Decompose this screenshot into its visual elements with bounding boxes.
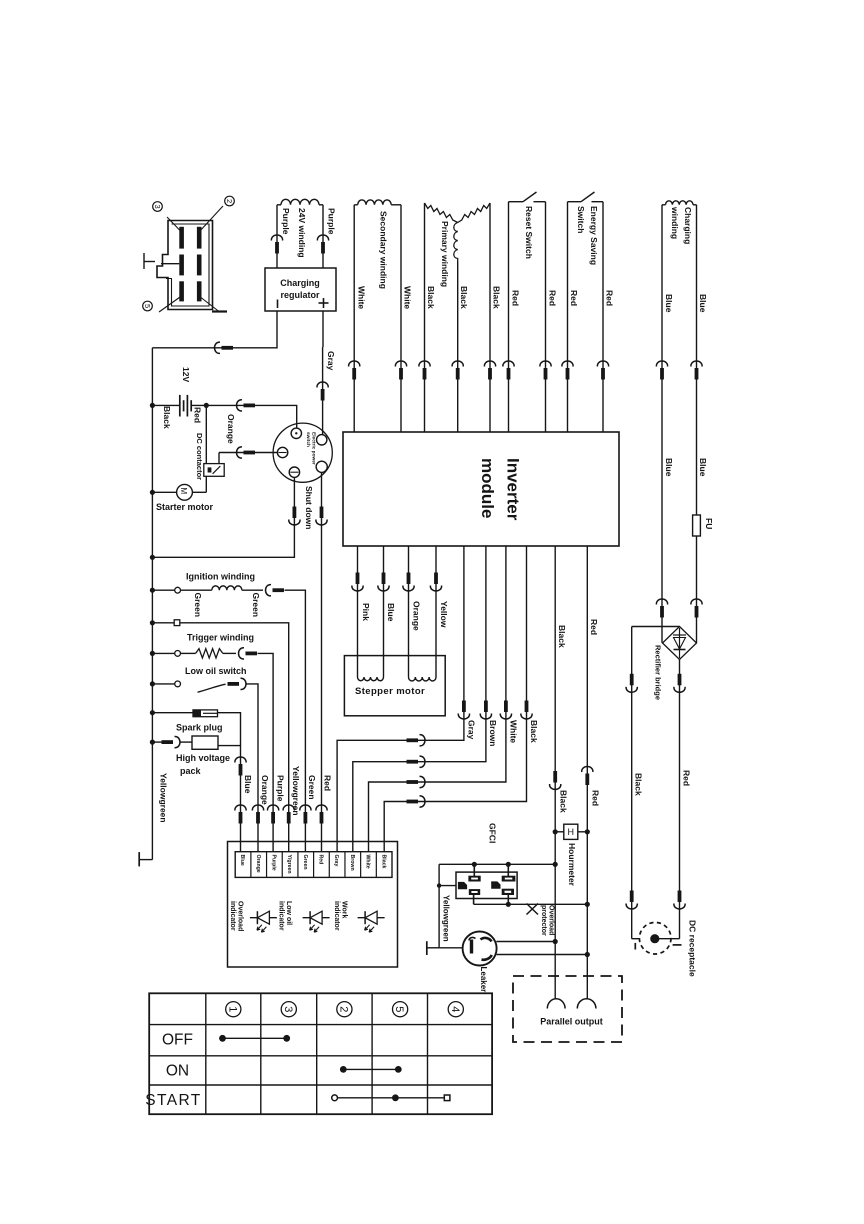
svg-text:OFF: OFF bbox=[162, 1032, 193, 1049]
gfci ground hole right bbox=[491, 881, 500, 888]
svg-text:Green: Green bbox=[302, 855, 308, 870]
wire energy red left to inverter bbox=[567, 202, 569, 432]
wire red from switch right-bottom pin down to panel cell Red bbox=[321, 472, 323, 851]
wire gray regulator right output down to power switch bbox=[322, 311, 324, 347]
wire gray inverter to panel cell bbox=[337, 546, 464, 852]
svg-text:Blue: Blue bbox=[386, 603, 396, 622]
connector gray horizontal bbox=[407, 738, 419, 742]
svg-text:Green: Green bbox=[251, 593, 261, 618]
junction battery positive bbox=[204, 403, 209, 408]
junction rail yellowgreen bbox=[150, 620, 155, 625]
svg-text:ON: ON bbox=[166, 1062, 189, 1079]
connector white riser bbox=[504, 701, 508, 713]
connector on blue wire below hv pack bbox=[235, 757, 246, 762]
wire secondary white right to inverter bbox=[400, 205, 402, 432]
junction leaker black bbox=[553, 939, 558, 944]
svg-text:Leaker: Leaker bbox=[479, 967, 488, 993]
wire blue inverter to stepper bbox=[383, 546, 385, 677]
panel terminal divider 2 bbox=[266, 852, 268, 878]
connector on blue wire above panel bbox=[235, 805, 246, 810]
wire orange inverter to stepper bbox=[408, 546, 410, 677]
svg-text:2: 2 bbox=[225, 199, 234, 203]
junction rail shutdown bbox=[150, 555, 155, 560]
spark plug P1 symbol bbox=[193, 710, 218, 717]
DC receptacle J2 dashed circle bbox=[639, 922, 671, 954]
power switch pin top bbox=[291, 428, 301, 438]
svg-text:DC receptacle: DC receptacle bbox=[687, 920, 697, 977]
leaker CB1 circle bbox=[463, 932, 497, 966]
ignition winding wire and coil bbox=[181, 589, 212, 591]
battery wire right to junction and to power switch top pin bbox=[191, 405, 297, 428]
connector on trigger purple wire bbox=[239, 648, 244, 659]
connector J1 pin slot row2 left bbox=[179, 255, 184, 276]
connector black above dc receptacle bbox=[630, 891, 634, 903]
wire red rectifier bottom output down bbox=[679, 660, 681, 939]
svg-text:Black: Black bbox=[162, 406, 172, 429]
connector on orange wire above panel bbox=[252, 805, 263, 810]
svg-text:Trigger winding: Trigger winding bbox=[187, 633, 254, 643]
panel terminal divider 5 bbox=[313, 852, 315, 878]
panel terminal divider 1 bbox=[250, 852, 252, 878]
wire white inverter to panel cell bbox=[369, 546, 506, 852]
table vertical line 2 bbox=[260, 993, 262, 1114]
connector red above dc receptacle bbox=[678, 891, 682, 903]
svg-text:2: 2 bbox=[337, 1006, 349, 1012]
svg-text:Gray: Gray bbox=[466, 720, 476, 740]
svg-text:Black: Black bbox=[558, 790, 568, 813]
svg-text:White: White bbox=[402, 286, 412, 309]
connector secondary right bbox=[395, 361, 406, 366]
rectifier bridge D1 diamond bbox=[663, 627, 697, 660]
wire green ignition to panel cell Green bbox=[285, 590, 306, 852]
pin label 3 (rotated circled) bbox=[153, 202, 163, 212]
wire spark plug to blue junction bbox=[218, 713, 241, 746]
connector blue right top bbox=[691, 361, 702, 366]
leaker slot top right bbox=[481, 938, 492, 942]
svg-text:Secondary winding: Secondary winding bbox=[378, 211, 388, 289]
wire gfci top pin left bbox=[473, 864, 475, 876]
wire battery junction down to contactor and starter bbox=[205, 405, 207, 492]
panel terminal divider 9 bbox=[375, 852, 377, 878]
svg-text:Gray: Gray bbox=[333, 855, 339, 867]
table horizontal line 3 bbox=[149, 1084, 492, 1086]
low oil switch terminal circle bbox=[175, 681, 181, 687]
connector J1 pin slot row2 right bbox=[197, 255, 202, 276]
junction rail-battery bbox=[150, 403, 155, 408]
svg-text:Red: Red bbox=[681, 770, 691, 786]
svg-text:Spark plug: Spark plug bbox=[176, 723, 223, 733]
parallel output socket arc left bbox=[547, 999, 565, 1009]
svg-text:GFCI: GFCI bbox=[487, 823, 497, 843]
svg-text:Red: Red bbox=[510, 290, 520, 306]
junction rail-starter bbox=[150, 490, 155, 495]
svg-text:START: START bbox=[145, 1092, 201, 1109]
primary winding zigzag left bbox=[425, 203, 458, 223]
connector on battery-to-switch wire bbox=[237, 400, 242, 411]
panel terminal divider 4 bbox=[297, 852, 299, 878]
connector on shutdown left wire bbox=[293, 507, 297, 519]
wire black rectifier top output to left and down bbox=[632, 626, 680, 628]
svg-text:Orange: Orange bbox=[226, 414, 236, 444]
svg-text:Blue: Blue bbox=[664, 294, 674, 313]
svg-text:Yellowgreen: Yellowgreen bbox=[442, 895, 451, 942]
24V winding coil bbox=[281, 199, 319, 204]
table OFF contact line 1-3 bbox=[223, 1037, 287, 1039]
connector red mains bbox=[582, 767, 593, 772]
wire rail to trigger terminal bbox=[152, 652, 174, 654]
low oil switch blade bbox=[198, 684, 226, 692]
connector brown riser bbox=[484, 701, 488, 713]
svg-text:Hourmeter: Hourmeter bbox=[567, 843, 577, 887]
wire yellowgreen from square terminal to panel cell bbox=[180, 623, 289, 852]
connector blue stepper bbox=[382, 573, 386, 585]
wire brown inverter to panel cell bbox=[353, 546, 486, 852]
gfci ground hole left bbox=[458, 882, 467, 889]
connector brown horizontal bbox=[407, 760, 419, 764]
connector white horizontal bbox=[407, 780, 419, 784]
connector gray riser bbox=[462, 701, 466, 713]
connector black mains bbox=[553, 771, 557, 783]
svg-text:Stepper motor: Stepper motor bbox=[355, 686, 425, 697]
svg-text:Blue: Blue bbox=[698, 458, 708, 477]
gfci bottom slot right bbox=[502, 889, 513, 894]
svg-text:Primary winding: Primary winding bbox=[440, 221, 450, 287]
svg-text:FU: FU bbox=[704, 518, 714, 529]
wire leaker to black top bbox=[496, 941, 555, 943]
gfci top slot right bbox=[502, 876, 515, 881]
charging regulator U2 box bbox=[265, 268, 336, 311]
power switch pin right-top bbox=[317, 435, 327, 445]
table vertical line 3 bbox=[316, 993, 318, 1114]
svg-text:Black: Black bbox=[426, 286, 436, 309]
svg-text:regulator: regulator bbox=[280, 290, 320, 300]
DC receptacle centre contact bbox=[650, 934, 659, 943]
leaker slot bottom right bbox=[482, 955, 492, 960]
connector blue left top bbox=[656, 361, 667, 366]
electric power switch S1 body circle bbox=[273, 423, 332, 482]
energy saving switch S3 contacts and blade bbox=[568, 201, 582, 203]
charging regulator minus mark bbox=[277, 300, 279, 309]
svg-text:Black: Black bbox=[633, 773, 643, 796]
connector black riser bbox=[525, 701, 529, 713]
control panel box bbox=[228, 842, 398, 968]
high voltage pack T1 box bbox=[192, 736, 218, 749]
svg-text:Purple: Purple bbox=[275, 775, 285, 802]
svg-text:Overloadprotector: Overloadprotector bbox=[540, 905, 555, 936]
connector on purple wire left bbox=[271, 235, 282, 240]
svg-text:Overloadindicator: Overloadindicator bbox=[229, 901, 244, 931]
wire hv pack right to blue wire down to panel cell Blue bbox=[218, 746, 241, 852]
svg-text:Red: Red bbox=[604, 290, 614, 306]
connector on purple wire above panel bbox=[267, 805, 278, 810]
connector primary right bbox=[484, 361, 495, 366]
connector energy left bbox=[562, 361, 573, 366]
primary winding centre coil bbox=[454, 223, 458, 263]
battery B1 12V wire left bbox=[152, 404, 179, 406]
svg-text:Orange: Orange bbox=[255, 855, 261, 873]
svg-text:Ignition winding: Ignition winding bbox=[186, 572, 255, 582]
ground tab yellowgreen bbox=[426, 941, 428, 955]
wire overload protector line bbox=[474, 903, 588, 905]
svg-text:Brown: Brown bbox=[488, 720, 498, 746]
wire black inverter to parallel output bbox=[554, 546, 556, 999]
wire pink inverter to stepper bbox=[357, 546, 359, 677]
wire black into dc receptacle bbox=[632, 938, 640, 940]
svg-text:Black: Black bbox=[491, 286, 501, 309]
wire black inverter to panel cell bbox=[384, 546, 526, 852]
leaker slot left bbox=[470, 940, 473, 954]
panel terminal strip bbox=[235, 852, 392, 878]
fuse FU bbox=[693, 515, 701, 536]
wire rail to low oil terminal bbox=[152, 683, 174, 685]
stepper motor M2 box bbox=[344, 656, 445, 716]
DC contactor internal contact bbox=[208, 467, 212, 472]
stepper motor coil 1 bbox=[358, 677, 384, 681]
power switch pin left bbox=[277, 447, 287, 457]
connector yellow stepper bbox=[434, 573, 438, 585]
connector on red wire above panel bbox=[316, 805, 327, 810]
wire orange low-oil to panel cell Orange bbox=[247, 684, 259, 852]
table horizontal line 1 bbox=[149, 1024, 492, 1026]
connector on red shutdown wire bbox=[320, 507, 324, 519]
stepper motor coil 2 bbox=[409, 677, 437, 681]
connector J1 pin slot row1 left bbox=[179, 227, 184, 249]
wire primary black centre to inverter bbox=[457, 262, 459, 432]
wire rail to spark plug bbox=[152, 712, 193, 714]
svg-text:Low oil switch: Low oil switch bbox=[185, 666, 247, 676]
wire gfci bottom pin right down bbox=[507, 894, 509, 904]
svg-text:Red: Red bbox=[547, 290, 557, 306]
wire gfci top pin right bbox=[507, 864, 509, 876]
svg-text:Red: Red bbox=[590, 790, 600, 806]
wire blue left charging winding down to rectifier bbox=[661, 205, 663, 643]
wire energy red right to inverter bbox=[602, 202, 604, 432]
table vertical line 1 bbox=[205, 993, 207, 1114]
svg-text:Gray: Gray bbox=[326, 351, 336, 371]
svg-text:24V winding: 24V winding bbox=[297, 208, 307, 258]
junction rail low-oil bbox=[150, 681, 155, 686]
connector orange stepper bbox=[407, 573, 411, 585]
trigger winding zigzag coil bbox=[181, 652, 196, 654]
svg-text:Charging: Charging bbox=[280, 278, 320, 288]
connector J1 inner border bbox=[166, 224, 209, 306]
junction gfci bottom right bbox=[506, 902, 511, 907]
junction rail ignition bbox=[150, 588, 155, 593]
connector on yellowgreen wire above panel bbox=[283, 805, 294, 810]
wire primary black left to inverter bbox=[424, 203, 426, 432]
svg-text:Green: Green bbox=[307, 775, 317, 800]
wire shut down left from switch bottom pin bbox=[152, 477, 294, 557]
svg-text:H: H bbox=[568, 827, 575, 837]
svg-text:Shut down: Shut down bbox=[304, 486, 314, 529]
charging winding coil bbox=[666, 201, 694, 205]
inverter module U1 box bbox=[343, 432, 619, 546]
wire red into dc receptacle bbox=[655, 938, 680, 940]
connector J1 pin slot row3 left bbox=[179, 281, 184, 301]
svg-text:Red: Red bbox=[318, 855, 324, 865]
table header circled 2 bbox=[337, 1002, 352, 1017]
svg-text:Red: Red bbox=[569, 290, 579, 306]
svg-text:1: 1 bbox=[226, 1006, 238, 1012]
connector blue left above rectifier bbox=[656, 599, 667, 604]
panel terminal divider 3 bbox=[281, 852, 283, 878]
svg-text:Y/green: Y/green bbox=[286, 855, 292, 874]
pin label 2 (rotated circled) bbox=[225, 196, 235, 206]
wire gfci left pin to yellowgreen bbox=[439, 885, 456, 887]
svg-text:pack: pack bbox=[180, 766, 202, 776]
key switch table outer frame bbox=[149, 993, 492, 1114]
svg-text:Starter motor: Starter motor bbox=[156, 502, 214, 512]
wire rail to square terminal bbox=[152, 622, 174, 624]
wire blue right charging winding down to rectifier bbox=[696, 205, 698, 643]
power switch pin bottom bbox=[289, 467, 299, 477]
svg-text:Red: Red bbox=[192, 407, 202, 423]
reset switch S2 contacts and blade bbox=[509, 201, 524, 203]
svg-text:4: 4 bbox=[449, 1006, 461, 1012]
wire 24V winding left to charging regulator bbox=[277, 204, 281, 206]
table START contact line 2-5-4 bbox=[335, 1097, 448, 1099]
wire 24V winding right to charging regulator bbox=[319, 204, 323, 206]
connector on green wire above panel bbox=[300, 805, 311, 810]
charging regulator plus mark bbox=[319, 302, 329, 304]
svg-text:Purple: Purple bbox=[271, 855, 277, 871]
wire starter motor to battery vertical bbox=[192, 491, 206, 493]
leader line pin 4 bbox=[199, 296, 219, 312]
connector J1 (key switch connector) outer body bbox=[157, 221, 213, 310]
svg-text:Yellowgreen: Yellowgreen bbox=[291, 766, 301, 816]
wire red inverter to parallel output bbox=[586, 546, 588, 999]
svg-text:Blue: Blue bbox=[698, 294, 708, 313]
junction overload on red bbox=[585, 902, 590, 907]
wire contactor to orange line bbox=[218, 453, 220, 464]
svg-text:Purple: Purple bbox=[326, 208, 336, 235]
svg-text:M: M bbox=[179, 488, 188, 495]
svg-text:Black: Black bbox=[557, 625, 567, 648]
hourmeter HM1 box bbox=[564, 824, 578, 839]
svg-text:3: 3 bbox=[153, 204, 162, 208]
connector reset left bbox=[503, 361, 514, 366]
table header circled 4 bbox=[448, 1002, 463, 1017]
low oil indicator LED2 bbox=[303, 917, 330, 919]
wire charging regulator output left down and to left rail bbox=[152, 311, 277, 348]
wire rail to high voltage pack with connector bbox=[152, 741, 162, 743]
left rail ground tab bbox=[140, 859, 153, 861]
svg-text:Brown: Brown bbox=[349, 855, 355, 871]
connector on purple wire right bbox=[317, 235, 328, 240]
parallel output dashed box bbox=[513, 976, 622, 1042]
svg-text:Blue: Blue bbox=[243, 775, 253, 794]
wire gfci top feed line bbox=[439, 863, 555, 865]
svg-text:White: White bbox=[356, 286, 366, 309]
gfci bottom slot left bbox=[469, 890, 479, 895]
wire to leaker left bbox=[439, 947, 463, 949]
DC contactor K1 box bbox=[204, 464, 224, 477]
connector energy right bbox=[597, 361, 608, 366]
pin label 1 mark (rotated) bbox=[143, 253, 145, 269]
work indicator LED3 bbox=[358, 917, 385, 919]
connector on regulator-to-rail wire bbox=[215, 342, 220, 353]
svg-text:Black: Black bbox=[459, 286, 469, 309]
svg-text:Parallel output: Parallel output bbox=[540, 1017, 603, 1027]
connector red below rectifier bbox=[678, 674, 682, 686]
svg-text:Yellowgreen: Yellowgreen bbox=[158, 773, 168, 823]
connector blue right above rectifier bbox=[691, 599, 702, 604]
wire yellowgreen gfci down to ground tab bbox=[438, 864, 440, 948]
panel terminal divider 8 bbox=[360, 852, 362, 878]
connector reset right bbox=[540, 361, 551, 366]
wire secondary white left to inverter bbox=[353, 205, 355, 432]
GFCI receptacle J3 box bbox=[456, 872, 517, 898]
connector primary left bbox=[419, 361, 430, 366]
battery B1 plates bbox=[179, 395, 181, 417]
starter motor M1 circle bbox=[177, 484, 193, 500]
wire rail to starter motor bbox=[152, 491, 176, 493]
svg-text:Orange: Orange bbox=[260, 775, 270, 805]
junction leaker red bbox=[585, 952, 590, 957]
svg-text:Orange: Orange bbox=[411, 601, 421, 631]
gfci top slot left bbox=[469, 876, 480, 881]
wire orange contactor to power switch left pin bbox=[219, 452, 277, 454]
svg-text:5: 5 bbox=[143, 304, 152, 308]
connector on ignition green wire bbox=[266, 585, 271, 596]
svg-text:Blue: Blue bbox=[664, 458, 674, 477]
table header circled 1 bbox=[226, 1002, 241, 1017]
table vertical line 4 bbox=[371, 993, 373, 1114]
connector secondary left bbox=[349, 361, 360, 366]
svg-text:3: 3 bbox=[282, 1006, 294, 1012]
wire gfci bottom pin left down bbox=[473, 894, 475, 904]
svg-text:White: White bbox=[508, 720, 518, 743]
wire hourmeter to red bbox=[578, 831, 588, 833]
overload protector X symbol bbox=[527, 904, 539, 915]
connector black horizontal bbox=[407, 800, 419, 804]
svg-text:Black: Black bbox=[380, 855, 386, 869]
wire yellow inverter to stepper bbox=[435, 546, 437, 677]
dc receptacle plus mark bbox=[673, 944, 682, 946]
svg-text:Blue: Blue bbox=[239, 855, 245, 866]
table header circled 5 bbox=[393, 1002, 408, 1017]
connector J1 pin slot row3 right bbox=[197, 281, 202, 301]
wire black to hourmeter bbox=[555, 831, 564, 833]
overload indicator LED1 bbox=[250, 917, 277, 919]
junction rail spark bbox=[150, 710, 155, 715]
leader line pin 5 bbox=[159, 296, 182, 312]
svg-text:Rectifier bridge: Rectifier bridge bbox=[653, 645, 662, 700]
svg-text:5: 5 bbox=[393, 1006, 405, 1012]
wire reset red right to inverter bbox=[545, 202, 547, 432]
table header circled 3 bbox=[281, 1002, 296, 1017]
parallel output socket arc right bbox=[577, 999, 596, 1009]
secondary winding coil bbox=[358, 200, 392, 205]
wire reset red left to inverter bbox=[508, 202, 510, 432]
wire leaker to red bottom bbox=[497, 954, 588, 956]
connector pink bbox=[356, 573, 360, 585]
junction red hourmeter bbox=[585, 829, 590, 834]
panel terminal divider 7 bbox=[344, 852, 346, 878]
square terminal yellowgreen bbox=[174, 620, 180, 626]
wire purple trigger to panel cell Purple bbox=[258, 653, 274, 851]
connector J1 pin slot row1 right bbox=[197, 227, 202, 249]
power switch pin right-bottom bbox=[316, 461, 327, 472]
svg-text:Purple: Purple bbox=[281, 208, 291, 235]
svg-text:High voltage: High voltage bbox=[176, 753, 230, 763]
svg-text:White: White bbox=[365, 855, 371, 869]
svg-text:Reset Switch: Reset Switch bbox=[524, 206, 534, 259]
junction gfci feed on black bbox=[553, 862, 558, 867]
connector on low oil orange wire bbox=[228, 682, 240, 686]
connector J1 key bar to pin row2 bbox=[161, 263, 179, 265]
dc receptacle minus mark bbox=[634, 943, 636, 950]
